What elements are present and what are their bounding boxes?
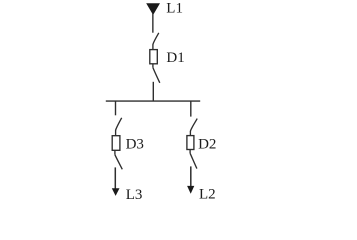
wire: D1 bottom contact to busbar: [152, 82, 154, 101]
wire: busbar to D2 top contact: [190, 101, 192, 117]
wire: L1 arrow to D1 top contact: [152, 14, 154, 33]
load arrow L2 (solid triangle pointing down): [187, 186, 194, 194]
wire: D3 bottom contact to L3 arrow: [114, 167, 116, 189]
svg-text:D3: D3: [126, 137, 144, 153]
svg-text:L2: L2: [199, 186, 216, 202]
fuse-switch-disconnector D1: [150, 33, 160, 83]
svg-text:D1: D1: [166, 50, 184, 66]
busbar node: [106, 100, 200, 102]
svg-text:L1: L1: [166, 1, 183, 17]
svg-text:D2: D2: [198, 136, 216, 152]
fuse-switch-disconnector D3: [112, 118, 122, 170]
load arrow L3 (solid triangle pointing down): [112, 188, 120, 196]
fuse-switch-disconnector D2: [187, 119, 197, 169]
wire: busbar to D3 top contact: [115, 101, 117, 115]
wire: D2 bottom contact to L2 arrow: [190, 166, 192, 187]
feeder arrow L1 (incoming supply, solid triangle pointing down): [146, 3, 160, 15]
svg-text:L3: L3: [126, 187, 143, 203]
